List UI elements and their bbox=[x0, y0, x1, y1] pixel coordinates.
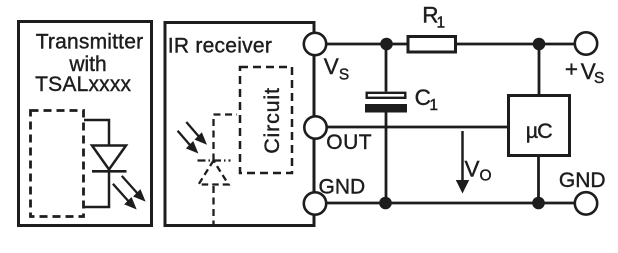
svg-text:TSALxxxx: TSALxxxx bbox=[35, 73, 131, 96]
svg-text:Circuit: Circuit bbox=[260, 87, 284, 154]
svg-text:GND: GND bbox=[319, 176, 366, 199]
svg-text:IR receiver: IR receiver bbox=[168, 34, 272, 57]
svg-text:Transmitter: Transmitter bbox=[36, 31, 144, 54]
svg-text:GND: GND bbox=[559, 169, 606, 192]
svg-text:µC: µC bbox=[526, 119, 552, 143]
svg-text:OUT: OUT bbox=[326, 131, 372, 154]
